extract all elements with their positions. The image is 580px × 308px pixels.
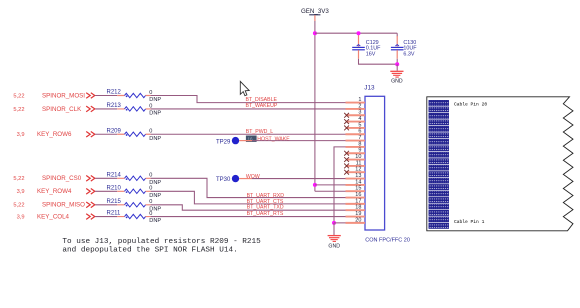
svg-text:14: 14 (355, 179, 361, 185)
resistor R209 0 DNP (107, 128, 162, 141)
no-connect X pin 4 (344, 119, 349, 124)
pin 20 of J13 (346, 217, 366, 223)
pin 1 of J13 (346, 97, 366, 103)
test point TP29 (216, 137, 239, 145)
svg-text:R215: R215 (107, 199, 122, 205)
no-connect X pin 9 (344, 151, 349, 156)
wire KEY_COL4 to R211 (95, 216, 117, 218)
cable pin block 1 (429, 223, 449, 228)
svg-text:SPINOR_MISO: SPINOR_MISO (42, 202, 85, 209)
capacitor C129 (352, 33, 365, 59)
svg-text:KEY_ROW4: KEY_ROW4 (37, 188, 72, 195)
power symbol GEN_3V3 (301, 8, 329, 21)
resistor R214 0 DNP (107, 173, 162, 186)
cable pin block 14 (429, 139, 449, 144)
svg-text:SPINOR_CLK: SPINOR_CLK (42, 106, 82, 113)
cable pin block 4 (429, 204, 449, 209)
svg-text:5,22: 5,22 (13, 176, 24, 182)
svg-text:R209: R209 (107, 128, 122, 134)
svg-text:R210: R210 (107, 186, 122, 192)
wire GEN_3V3 to J13 pin 15 (315, 190, 346, 192)
node net KEY_ROW4 (off-page ref 3,9) (17, 188, 95, 195)
resistor R212 0 DNP (107, 90, 162, 103)
node net SPINOR_CS0 (off-page ref 5,22) (13, 175, 94, 182)
wire SPINOR_MISO to R215 (95, 204, 117, 206)
svg-text:3,9: 3,9 (17, 132, 25, 138)
wire capacitor bottoms (359, 59, 398, 64)
wire J13 pin 8 to GND rail (334, 147, 346, 223)
cable pin block 20 (429, 100, 449, 105)
pin 9 of J13 (346, 148, 365, 154)
no-connect X pin 5 (344, 126, 349, 131)
pin 5 of J13 (346, 122, 365, 128)
cable pin block 5 (429, 197, 449, 202)
cable pin block 9 (429, 171, 449, 176)
svg-text:CON FPC/FFC 20: CON FPC/FFC 20 (365, 237, 410, 243)
wire SPINOR_CLK to R213 (95, 108, 117, 110)
svg-text:BT_PWD_L: BT_PWD_L (246, 129, 274, 135)
pin 6 of J13 (346, 129, 366, 135)
node net SPINOR_MOSI (off-page ref 5,22) (13, 92, 94, 99)
pin 2 of J13 (346, 103, 366, 109)
node selected tag 16 (highlight box) (246, 136, 257, 142)
svg-text:GND: GND (391, 79, 403, 85)
cable pin block 6 (429, 191, 449, 196)
svg-text:GND: GND (328, 243, 340, 249)
note text block (62, 238, 261, 255)
svg-text:KEY_ROW6: KEY_ROW6 (37, 131, 72, 138)
ground GND (connector) (328, 223, 341, 249)
svg-text:BT_WAKEUP: BT_WAKEUP (246, 103, 278, 109)
node junction GND rail / pin 20 (332, 221, 336, 225)
svg-text:HOST_WAKE: HOST_WAKE (257, 136, 290, 142)
svg-text:BT_UART_RXD: BT_UART_RXD (247, 193, 285, 199)
wire R211 to J13 pin 19 (151, 216, 346, 218)
svg-text:1: 1 (358, 97, 361, 103)
pin 8 of J13 (346, 141, 366, 147)
pin 3 of J13 (346, 110, 365, 116)
resistor R215 0 DNP (107, 199, 162, 212)
svg-text:J13: J13 (364, 84, 375, 91)
svg-text:17: 17 (355, 198, 361, 204)
cable pin block 3 (429, 210, 449, 215)
svg-text:BT_DISABLE: BT_DISABLE (246, 97, 278, 103)
capacitor C130 (391, 33, 404, 59)
cable pin block 13 (429, 146, 449, 151)
svg-text:20: 20 (355, 217, 361, 223)
svg-text:19: 19 (355, 211, 361, 217)
pin 7 of J13 (346, 135, 366, 141)
pin 10 of J13 (346, 154, 365, 160)
pin 16 of J13 (346, 192, 366, 198)
pin 17 of J13 (346, 198, 366, 204)
svg-text:5,22: 5,22 (13, 107, 24, 113)
svg-text:16: 16 (355, 192, 361, 198)
wire R215 to J13 pin 18 (151, 205, 346, 210)
svg-text:6: 6 (358, 129, 361, 135)
resistor R210 0 DNP (107, 186, 162, 199)
svg-text:9: 9 (358, 148, 361, 154)
svg-text:R211: R211 (107, 211, 122, 217)
pin 11 of J13 (346, 160, 365, 166)
svg-text:15: 15 (355, 186, 361, 192)
svg-text:DNP: DNP (149, 193, 161, 199)
cable pin block 12 (429, 152, 449, 157)
wire SPINOR_CS0 to R214 (95, 177, 117, 179)
node net SPINOR_MISO (off-page ref 5,22) (13, 202, 94, 209)
value label C130 10UF 6.3V (403, 40, 417, 58)
wire R214 to J13 pin 16 (151, 178, 346, 197)
svg-text:18: 18 (355, 205, 361, 211)
test point TP30 (216, 175, 239, 183)
svg-text:GEN_3V3: GEN_3V3 (301, 8, 329, 15)
svg-text:and depopulated the SPI NOR FL: and depopulated the SPI NOR FLASH U14. (62, 246, 237, 254)
svg-text:Cable Pin 1: Cable Pin 1 (454, 219, 485, 225)
wire R209 to J13 pin 6 (151, 133, 346, 135)
svg-text:3,9: 3,9 (17, 214, 25, 220)
cable pin block 19 (429, 107, 449, 112)
wire GEN_3V3 to J13 pin 14 (315, 184, 346, 186)
svg-text:5: 5 (358, 122, 361, 128)
svg-text:DNP: DNP (149, 110, 161, 116)
svg-text:TP30: TP30 (216, 177, 231, 183)
wire R213 to J13 pin 2 (151, 108, 346, 110)
pin 13 of J13 (346, 173, 366, 179)
svg-text:3: 3 (358, 110, 361, 116)
pin 14 of J13 (346, 179, 366, 185)
cable pin block 11 (429, 159, 449, 164)
svg-text:DNP: DNP (149, 218, 161, 224)
pin 19 of J13 (346, 211, 366, 217)
node net SPINOR_CLK (off-page ref 5,22) (13, 106, 94, 113)
svg-text:5,22: 5,22 (13, 203, 24, 209)
cable pin block 18 (429, 113, 449, 118)
cable pin block 7 (429, 184, 449, 189)
wire SPINOR_MOSI to R212 (95, 95, 117, 97)
wire GND rail to J13 pin 20 (334, 222, 346, 224)
wire TP29 HOST_WAKE to J13 pin 7 (239, 140, 252, 142)
node junction C130 bottom / GND (395, 62, 399, 66)
svg-text:BT_UART_RTS: BT_UART_RTS (247, 211, 284, 217)
svg-text:R213: R213 (107, 103, 122, 109)
pin 12 of J13 (346, 167, 365, 173)
svg-text:DNP: DNP (149, 136, 161, 142)
node junction GEN_3V3 / pin14 (313, 183, 317, 187)
resistor R213 0 DNP (107, 103, 162, 116)
svg-text:TP29: TP29 (216, 139, 231, 145)
wire GEN_3V3 vertical trunk (314, 21, 316, 191)
svg-text:10: 10 (355, 154, 361, 160)
cable pin block 15 (429, 133, 449, 138)
wire KEY_ROW6 to R209 (95, 133, 117, 135)
resistor R211 0 DNP (107, 211, 162, 224)
cable pin block 17 (429, 120, 449, 125)
svg-text:KEY_COL4: KEY_COL4 (37, 213, 70, 220)
ground GND (capacitors) (390, 64, 403, 85)
svg-text:6.3V: 6.3V (403, 52, 414, 58)
cable pin block 10 (429, 165, 449, 170)
pin 4 of J13 (346, 116, 365, 122)
svg-text:7: 7 (358, 135, 361, 141)
node net KEY_ROW6 (off-page ref 3,9) (17, 131, 95, 138)
svg-text:8: 8 (358, 141, 361, 147)
node junction C129 top (357, 31, 361, 35)
svg-text:3,9: 3,9 (17, 189, 25, 195)
cable drawing (FFC cable with torn edge) (427, 97, 573, 231)
wire GEN_3V3 to capacitors (315, 32, 397, 34)
svg-text:BT_UART_TXD: BT_UART_TXD (247, 204, 284, 210)
no-connect X pin 10 (344, 157, 349, 162)
mouse cursor (240, 81, 249, 95)
wire TP30 WOW to J13 pin 13 (239, 178, 252, 180)
svg-text:12: 12 (355, 167, 361, 173)
pin 18 of J13 (346, 205, 366, 211)
wire R210 to J13 pin 17 (151, 191, 346, 204)
pin 15 of J13 (346, 186, 366, 192)
svg-text:13: 13 (355, 173, 361, 179)
svg-text:5,22: 5,22 (13, 93, 24, 99)
wire R212 to J13 pin 1 (151, 96, 346, 103)
svg-text:R214: R214 (107, 173, 122, 179)
connector J13 body (364, 84, 384, 230)
value label C129 0.1UF 16V (366, 40, 381, 58)
node net KEY_COL4 (off-page ref 3,9) (17, 213, 95, 220)
svg-text:2: 2 (358, 103, 361, 109)
no-connect X pin 11 (344, 164, 349, 169)
svg-text:SPINOR_CS0: SPINOR_CS0 (42, 175, 82, 182)
svg-text:11: 11 (356, 160, 362, 166)
svg-text:R212: R212 (107, 90, 122, 96)
no-connect X pin 3 (344, 113, 349, 118)
svg-text:To use J13, populated resistor: To use J13, populated resistors R209 - R… (62, 238, 261, 246)
cable pin block 16 (429, 126, 449, 131)
svg-text:Cable Pin 20: Cable Pin 20 (454, 101, 487, 107)
svg-text:SPINOR_MOSI: SPINOR_MOSI (42, 92, 85, 99)
svg-text:DNP: DNP (149, 97, 161, 103)
svg-text:16V: 16V (366, 52, 376, 58)
cable pin block 2 (429, 217, 449, 222)
node junction GEN_3V3 / cap branch (313, 31, 317, 35)
wire KEY_ROW4 to R210 (95, 190, 117, 192)
no-connect X pin 12 (344, 170, 349, 175)
cable pin block 8 (429, 178, 449, 183)
svg-text:4: 4 (358, 116, 361, 122)
